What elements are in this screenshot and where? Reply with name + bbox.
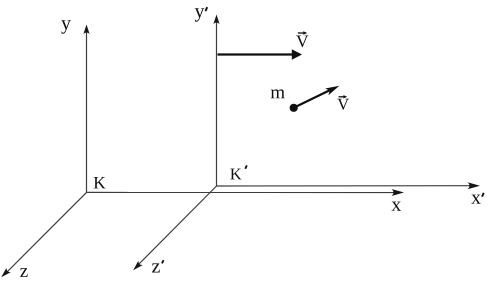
arrowhead z'-axis <box>131 261 143 273</box>
label V (particle velocity) <box>337 99 349 110</box>
label V (frame velocity) <box>296 36 308 48</box>
arrowhead z-axis <box>0 268 11 280</box>
arrowhead x'-axis <box>468 182 481 189</box>
label K' <box>230 169 241 180</box>
prime of x' <box>482 193 484 197</box>
wire y'-axis of frame K' <box>216 17 218 186</box>
arrowhead y'-axis <box>213 15 219 25</box>
arrowhead x-axis <box>392 189 405 196</box>
label x <box>391 202 401 211</box>
label z' <box>152 263 160 272</box>
arrowhead particle vector <box>325 82 341 95</box>
vector V of frame K' (horizontal arrow) <box>218 53 294 55</box>
wire x-axis of frame K <box>87 191 400 193</box>
wire x'-axis of frame K' <box>217 185 477 187</box>
label K <box>94 177 106 188</box>
label z <box>20 268 27 277</box>
prime of K' <box>245 165 247 168</box>
wire y-axis of frame K <box>86 27 88 192</box>
wire z'-axis of frame K' <box>136 186 217 268</box>
wire z-axis of frame K <box>4 192 87 275</box>
vector V of particle m <box>294 90 331 108</box>
prime of z' <box>162 260 164 263</box>
label y' <box>195 8 205 21</box>
accent arrow over first V <box>298 32 305 34</box>
label m <box>271 89 285 98</box>
label x' <box>471 195 481 204</box>
accent arrow over second V <box>339 96 345 98</box>
prime of y' <box>206 7 208 11</box>
label y <box>61 20 71 33</box>
node m (particle dot) <box>290 104 298 112</box>
arrowhead y-axis <box>83 25 89 35</box>
arrowhead vector V frame <box>292 49 302 60</box>
